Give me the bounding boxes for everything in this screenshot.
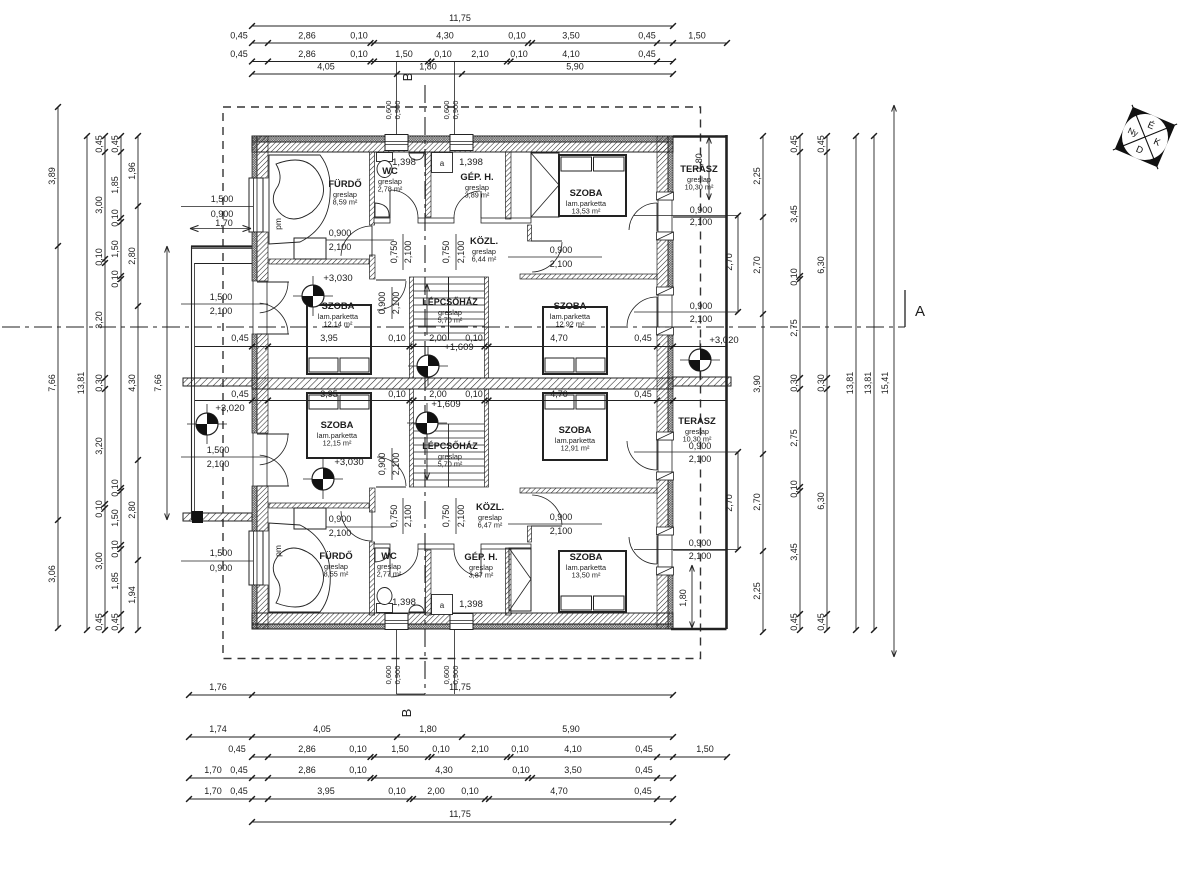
svg-text:2,100: 2,100: [456, 241, 466, 264]
svg-text:FÜRDŐ: FÜRDŐ: [319, 550, 352, 561]
left dim col outer: [57, 107, 59, 628]
gep door (bottom unit): [454, 549, 480, 576]
svg-text:2,100: 2,100: [391, 292, 401, 315]
svg-text:1,50: 1,50: [688, 31, 706, 41]
svg-text:2,78 m²: 2,78 m²: [378, 185, 403, 194]
svg-text:0,45: 0,45: [230, 49, 248, 59]
jamb cap: [657, 192, 674, 200]
svg-text:WC: WC: [381, 550, 397, 561]
corridor south wall (top unit): [520, 274, 657, 279]
svg-text:13,53 m²: 13,53 m²: [572, 207, 601, 216]
roof overhang dashed outline: [223, 107, 701, 659]
svg-text:2,100: 2,100: [403, 505, 413, 528]
svg-text:6,30: 6,30: [816, 256, 826, 274]
window bottom wall right: [450, 614, 473, 630]
svg-text:2,100: 2,100: [690, 217, 713, 227]
svg-text:LÉPCSŐHÁZ: LÉPCSŐHÁZ: [422, 440, 478, 451]
bottom dim row 4: [189, 777, 673, 779]
svg-text:5,70 m²: 5,70 m²: [438, 460, 463, 469]
staircase treads (top unit): [414, 276, 485, 278]
svg-text:A: A: [915, 303, 925, 320]
wc corner sink (top): [375, 203, 389, 217]
svg-text:0,10: 0,10: [388, 786, 406, 796]
svg-text:0,10: 0,10: [434, 49, 452, 59]
svg-text:1,500: 1,500: [210, 292, 233, 302]
level symbol szoba-w top: [293, 276, 333, 316]
corner bathtub (bottom bath): [269, 523, 330, 612]
jamb cap: [657, 567, 674, 575]
staircase arrow (bottom unit): [426, 432, 428, 480]
svg-text:1,50: 1,50: [110, 240, 120, 258]
svg-text:8,55 m²: 8,55 m²: [324, 570, 349, 579]
svg-text:6,30: 6,30: [816, 492, 826, 510]
window axis lines bottom: [396, 630, 398, 694]
svg-text:0,900: 0,900: [329, 228, 352, 238]
svg-text:0,45: 0,45: [635, 765, 653, 775]
svg-text:1,80: 1,80: [678, 589, 688, 607]
jamb cap: [657, 527, 674, 535]
wc toilet (top): [377, 153, 393, 162]
svg-text:0,900: 0,900: [689, 441, 712, 451]
svg-text:0,900: 0,900: [377, 292, 387, 315]
svg-text:2,100: 2,100: [329, 242, 352, 252]
svg-text:2,00: 2,00: [429, 389, 447, 399]
svg-text:12,15 m²: 12,15 m²: [323, 439, 352, 448]
top dim total 11,75: [252, 25, 673, 27]
bath door (bottom unit): [341, 511, 372, 541]
svg-text:0,600: 0,600: [442, 101, 451, 120]
threshold west door bottom: [252, 433, 254, 486]
svg-text:2,100: 2,100: [329, 528, 352, 538]
garden wall west vertical: [191, 246, 193, 520]
svg-text:2,100: 2,100: [456, 505, 466, 528]
section line B: [424, 85, 426, 694]
window west wall top (bath): [249, 178, 263, 232]
svg-text:TERASZ: TERASZ: [678, 415, 716, 426]
svg-text:3,89: 3,89: [47, 167, 57, 185]
svg-text:1,74: 1,74: [209, 724, 227, 734]
bed szoba west bottom: [307, 393, 371, 458]
svg-text:1,76: 1,76: [209, 682, 227, 692]
svg-text:0,900: 0,900: [377, 453, 387, 476]
dim 2,70 east bottom inner: [737, 452, 739, 550]
svg-text:1,96: 1,96: [127, 162, 137, 180]
svg-text:KÖZL.: KÖZL.: [470, 235, 498, 246]
svg-text:0,10: 0,10: [349, 744, 367, 754]
svg-text:2,70: 2,70: [752, 493, 762, 511]
wc toilet (bottom): [377, 604, 393, 613]
svg-text:0,45: 0,45: [634, 786, 652, 796]
svg-text:2,25: 2,25: [752, 582, 762, 600]
svg-text:0,45: 0,45: [231, 389, 249, 399]
svg-text:0,10: 0,10: [510, 49, 528, 59]
svg-text:0,45: 0,45: [638, 49, 656, 59]
dim 2,70 east top inner: [737, 216, 739, 313]
svg-text:2,80: 2,80: [127, 501, 137, 519]
bottom dim row 2: [189, 736, 673, 738]
bath door (top unit): [341, 226, 372, 256]
svg-text:2,100: 2,100: [690, 314, 713, 324]
party wall: [252, 378, 673, 389]
exterior wall bottom: [252, 613, 673, 624]
svg-text:SZOBA: SZOBA: [554, 300, 587, 311]
terrace door east (top unit): [629, 203, 657, 230]
interior dim row top unit: [195, 346, 726, 348]
svg-text:0,600: 0,600: [384, 101, 393, 120]
svg-text:1,50: 1,50: [696, 744, 714, 754]
left dim col 4: [120, 136, 122, 630]
svg-text:13,81: 13,81: [76, 372, 86, 395]
svg-text:0,10: 0,10: [511, 744, 529, 754]
window bottom wall left: [385, 614, 408, 630]
stairwell east wall (bottom unit): [485, 389, 489, 487]
svg-text:3,87 m²: 3,87 m²: [469, 571, 494, 580]
svg-text:1,80: 1,80: [419, 62, 437, 72]
svg-text:LÉPCSŐHÁZ: LÉPCSŐHÁZ: [422, 296, 478, 307]
terrace north-east slab edge: [673, 135, 727, 138]
right dim col 5: [873, 136, 875, 630]
svg-text:2,100: 2,100: [207, 459, 230, 469]
top dim row 3: [252, 61, 673, 63]
section line A: [2, 326, 905, 328]
svg-text:4,10: 4,10: [562, 49, 580, 59]
svg-text:2,100: 2,100: [550, 259, 573, 269]
svg-text:0,10: 0,10: [110, 209, 120, 227]
svg-text:1,50: 1,50: [110, 509, 120, 527]
jamb cap: [657, 472, 674, 480]
svg-text:0,45: 0,45: [789, 135, 799, 153]
svg-text:10,30 m²: 10,30 m²: [685, 183, 714, 192]
terrace south-east slab edge: [671, 628, 727, 631]
svg-text:0,45: 0,45: [94, 613, 104, 631]
svg-text:0,45: 0,45: [110, 135, 120, 153]
svg-text:0,10: 0,10: [350, 49, 368, 59]
svg-text:pm: pm: [273, 218, 283, 230]
svg-text:0,10: 0,10: [789, 480, 799, 498]
level symbol szoba-w bottom: [303, 459, 343, 499]
svg-text:0,900: 0,900: [690, 301, 713, 311]
svg-text:2,75: 2,75: [789, 319, 799, 337]
svg-text:a: a: [440, 159, 445, 168]
wardrobe szoba-se (bottom): [509, 548, 531, 611]
svg-text:2,00: 2,00: [429, 333, 447, 343]
svg-text:0,10: 0,10: [461, 786, 479, 796]
svg-text:0,10: 0,10: [388, 333, 406, 343]
wc corner sink (bottom): [375, 548, 389, 562]
svg-text:4,70: 4,70: [550, 786, 568, 796]
svg-text:0,45: 0,45: [634, 389, 652, 399]
bath/wc partition (bottom unit): [370, 542, 375, 615]
window top wall left: [385, 135, 408, 151]
svg-text:0,10: 0,10: [110, 479, 120, 497]
staircase arrow (top unit): [426, 284, 428, 335]
low garden wall north-west: [191, 245, 252, 247]
svg-text:SZOBA: SZOBA: [322, 300, 355, 311]
bottom dim row 1: [189, 694, 673, 696]
svg-text:1,398: 1,398: [392, 157, 416, 168]
svg-text:0,45: 0,45: [228, 744, 246, 754]
svg-text:5,90: 5,90: [562, 724, 580, 734]
szoba-w door (top unit): [377, 281, 406, 310]
jamb cap: [657, 287, 674, 295]
svg-text:4,05: 4,05: [317, 62, 335, 72]
interior dim row bottom unit: [195, 400, 726, 402]
svg-text:0,750: 0,750: [441, 505, 451, 528]
szoba-w door (bottom unit): [377, 457, 406, 486]
svg-text:13,50 m²: 13,50 m²: [572, 571, 601, 580]
svg-text:1,50: 1,50: [391, 744, 409, 754]
szoba-se door (bottom unit): [532, 495, 562, 525]
svg-text:1,500: 1,500: [210, 548, 233, 558]
svg-text:2,100: 2,100: [689, 454, 712, 464]
svg-text:GÉP. H.: GÉP. H.: [464, 551, 497, 562]
terrace door east (bottom unit): [629, 537, 657, 564]
svg-text:0,900: 0,900: [550, 245, 573, 255]
svg-text:4,30: 4,30: [127, 374, 137, 392]
svg-text:3,50: 3,50: [562, 31, 580, 41]
svg-text:FÜRDŐ: FÜRDŐ: [328, 178, 361, 189]
svg-text:0,600: 0,600: [384, 666, 393, 685]
right dim col 3: [826, 136, 828, 630]
svg-text:1,398: 1,398: [459, 599, 483, 610]
wc door (top unit): [391, 190, 418, 218]
svg-text:2,10: 2,10: [471, 49, 489, 59]
svg-text:0,750: 0,750: [441, 241, 451, 264]
svg-text:1,50: 1,50: [395, 49, 413, 59]
svg-text:2,100: 2,100: [391, 453, 401, 476]
left dim col 5: [137, 136, 139, 630]
svg-text:6,44 m²: 6,44 m²: [472, 255, 497, 264]
svg-text:2,100: 2,100: [210, 306, 233, 316]
svg-text:2,100: 2,100: [689, 551, 712, 561]
svg-text:0,10: 0,10: [349, 765, 367, 775]
wardrobe szoba-ne (top): [531, 153, 559, 217]
svg-text:0,10: 0,10: [110, 270, 120, 288]
svg-text:8,59 m²: 8,59 m²: [333, 198, 358, 207]
svg-text:1,70: 1,70: [215, 218, 233, 228]
svg-text:3,90: 3,90: [752, 375, 762, 393]
right dim col 2: [799, 136, 801, 630]
svg-text:2,70: 2,70: [752, 256, 762, 274]
window axis lines top: [396, 62, 398, 136]
svg-text:a: a: [440, 601, 445, 610]
boiler box gep (bottom): [432, 595, 453, 615]
svg-text:0,900: 0,900: [393, 666, 402, 685]
party wall west extension / garden wall: [183, 378, 252, 386]
svg-text:11,75: 11,75: [449, 13, 471, 23]
svg-text:2,70: 2,70: [724, 494, 734, 512]
svg-text:13,81: 13,81: [845, 372, 855, 395]
szoba east door (bottom unit): [627, 441, 657, 470]
svg-text:2,25: 2,25: [752, 167, 762, 185]
svg-text:2,86: 2,86: [298, 31, 316, 41]
gep/szoba partition (top unit): [506, 152, 512, 219]
svg-text:B: B: [399, 709, 414, 718]
svg-text:SZOBA: SZOBA: [570, 551, 603, 562]
cabinet above bath wall (bottom): [294, 508, 326, 529]
svg-text:0,900: 0,900: [393, 101, 402, 120]
svg-text:5,90: 5,90: [566, 62, 584, 72]
svg-text:KÖZL.: KÖZL.: [476, 501, 504, 512]
svg-text:0,10: 0,10: [789, 268, 799, 286]
window west wall bottom (bath): [249, 531, 263, 585]
level symbol west garden: [187, 404, 227, 444]
szoba-ne door (top unit): [532, 242, 562, 272]
svg-text:3,06: 3,06: [47, 565, 57, 583]
svg-text:+3,030: +3,030: [323, 273, 352, 284]
svg-text:SZOBA: SZOBA: [321, 419, 354, 430]
svg-text:0,10: 0,10: [465, 333, 483, 343]
svg-text:2,100: 2,100: [403, 241, 413, 264]
level symbol terrace strip: [680, 340, 720, 380]
svg-text:12,91 m²: 12,91 m²: [561, 444, 590, 453]
svg-text:3,00: 3,00: [94, 196, 104, 214]
svg-text:1,80: 1,80: [419, 724, 437, 734]
staircase divider (bottom unit): [448, 424, 450, 487]
svg-text:12,14 m²: 12,14 m²: [324, 320, 353, 329]
svg-text:6,47 m²: 6,47 m²: [478, 521, 503, 530]
svg-text:13,81: 13,81: [863, 372, 873, 395]
dim 1,80 east top: [708, 137, 710, 200]
svg-text:3,45: 3,45: [789, 543, 799, 561]
svg-text:0,45: 0,45: [634, 333, 652, 343]
svg-text:2,70: 2,70: [724, 253, 734, 271]
svg-text:0,10: 0,10: [110, 540, 120, 558]
svg-text:3,95: 3,95: [317, 786, 335, 796]
jamb cap: [657, 232, 674, 240]
svg-text:0,10: 0,10: [388, 389, 406, 399]
top dim row 4: [252, 73, 673, 75]
svg-text:0,10: 0,10: [350, 31, 368, 41]
svg-text:4,05: 4,05: [313, 724, 331, 734]
svg-text:+3,030: +3,030: [334, 457, 363, 468]
svg-text:3,45: 3,45: [789, 205, 799, 223]
svg-text:+1,609: +1,609: [444, 342, 473, 353]
svg-text:0,45: 0,45: [230, 31, 248, 41]
svg-text:4,30: 4,30: [435, 765, 453, 775]
bed szoba mid top: [543, 307, 607, 374]
svg-text:4,70: 4,70: [550, 389, 568, 399]
svg-text:1,500: 1,500: [211, 194, 234, 204]
szoba west wall stub (bottom unit): [528, 526, 532, 542]
svg-text:0,45: 0,45: [638, 31, 656, 41]
svg-text:0,10: 0,10: [432, 744, 450, 754]
svg-text:3,20: 3,20: [94, 311, 104, 329]
right dim col 1: [762, 136, 764, 632]
svg-text:2,86: 2,86: [298, 744, 316, 754]
level symbol stairs top: [408, 346, 448, 386]
svg-text:0,10: 0,10: [508, 31, 526, 41]
svg-text:0,10: 0,10: [94, 248, 104, 266]
stairwell west wall (top unit): [410, 277, 414, 378]
svg-text:7,66: 7,66: [153, 374, 163, 392]
svg-text:3,89 m²: 3,89 m²: [465, 191, 490, 200]
level symbol stairs bottom: [407, 403, 447, 443]
svg-text:SZOBA: SZOBA: [559, 424, 592, 435]
svg-text:4,10: 4,10: [564, 744, 582, 754]
staircase treads (bottom unit): [414, 486, 485, 488]
corridor north wall pieces (top unit): [374, 218, 390, 223]
bottom dim row 5: [189, 798, 673, 800]
svg-text:5,70 m²: 5,70 m²: [438, 316, 463, 325]
szoba east door (top unit): [627, 297, 657, 326]
staircase divider (top unit): [448, 277, 450, 340]
bath/wc partition (top unit): [370, 152, 375, 225]
svg-text:0,900: 0,900: [451, 101, 460, 120]
svg-text:1,85: 1,85: [110, 572, 120, 590]
svg-text:2,86: 2,86: [298, 49, 316, 59]
bath south wall (top unit): [269, 259, 369, 264]
svg-text:2,75: 2,75: [789, 429, 799, 447]
svg-text:1,94: 1,94: [127, 586, 137, 604]
cabinet below bath wall (top): [294, 238, 326, 259]
corridor south wall (bottom unit): [520, 488, 657, 493]
left dim col 3: [104, 136, 106, 630]
entry french door west (top unit): [257, 281, 289, 283]
party wall east extension / garden wall: [673, 377, 731, 386]
svg-text:2,100: 2,100: [550, 526, 573, 536]
svg-text:3,95: 3,95: [320, 389, 338, 399]
bed szoba east bottom: [559, 551, 626, 612]
svg-text:SZOBA: SZOBA: [570, 187, 603, 198]
svg-text:1,85: 1,85: [110, 176, 120, 194]
jamb cap: [657, 432, 674, 440]
svg-text:0,900: 0,900: [689, 538, 712, 548]
svg-text:+3,020: +3,020: [709, 335, 738, 346]
svg-text:0,45: 0,45: [635, 744, 653, 754]
svg-text:3,20: 3,20: [94, 437, 104, 455]
svg-text:15,41: 15,41: [880, 372, 890, 395]
bed szoba mid bottom: [543, 393, 607, 460]
svg-text:0,45: 0,45: [230, 765, 248, 775]
svg-text:0,750: 0,750: [389, 505, 399, 528]
svg-text:0,30: 0,30: [789, 374, 799, 392]
svg-text:3,95: 3,95: [320, 333, 338, 343]
bed szoba west top: [307, 305, 371, 374]
svg-text:1,80: 1,80: [694, 153, 704, 171]
svg-text:0,10: 0,10: [94, 500, 104, 518]
corridor north wall pieces (bottom unit): [374, 544, 390, 549]
svg-text:4,70: 4,70: [550, 333, 568, 343]
dim 1,80 east bottom: [691, 565, 693, 628]
stairwell east wall (top unit): [485, 277, 489, 378]
corner bathtub (top bath): [269, 155, 330, 244]
svg-text:0,45: 0,45: [816, 135, 826, 153]
right dim col 15,41: [893, 105, 895, 657]
svg-text:0,900: 0,900: [210, 563, 233, 573]
bottom dim row 6: [252, 821, 673, 823]
svg-text:3,50: 3,50: [564, 765, 582, 775]
svg-text:0,900: 0,900: [690, 205, 713, 215]
svg-text:1,398: 1,398: [459, 157, 483, 168]
right dim col 4: [855, 136, 857, 630]
svg-text:0,45: 0,45: [230, 786, 248, 796]
svg-text:2,80: 2,80: [127, 247, 137, 265]
szoba west wall stub (top unit): [528, 225, 532, 241]
svg-text:2,77 m²: 2,77 m²: [377, 570, 402, 579]
gep/szoba partition (bottom unit): [506, 548, 512, 615]
gep door (top unit): [454, 191, 480, 218]
boiler box gep (top): [432, 153, 453, 173]
exterior wall west: [252, 136, 257, 178]
wc/gep partition (bottom unit): [426, 550, 432, 615]
exterior wall top: [252, 136, 673, 142]
svg-text:0,10: 0,10: [465, 389, 483, 399]
wc door (bottom unit): [391, 549, 418, 577]
top dim row 2: [252, 42, 727, 44]
svg-text:2,86: 2,86: [298, 765, 316, 775]
wc sink (bottom): [409, 605, 424, 612]
